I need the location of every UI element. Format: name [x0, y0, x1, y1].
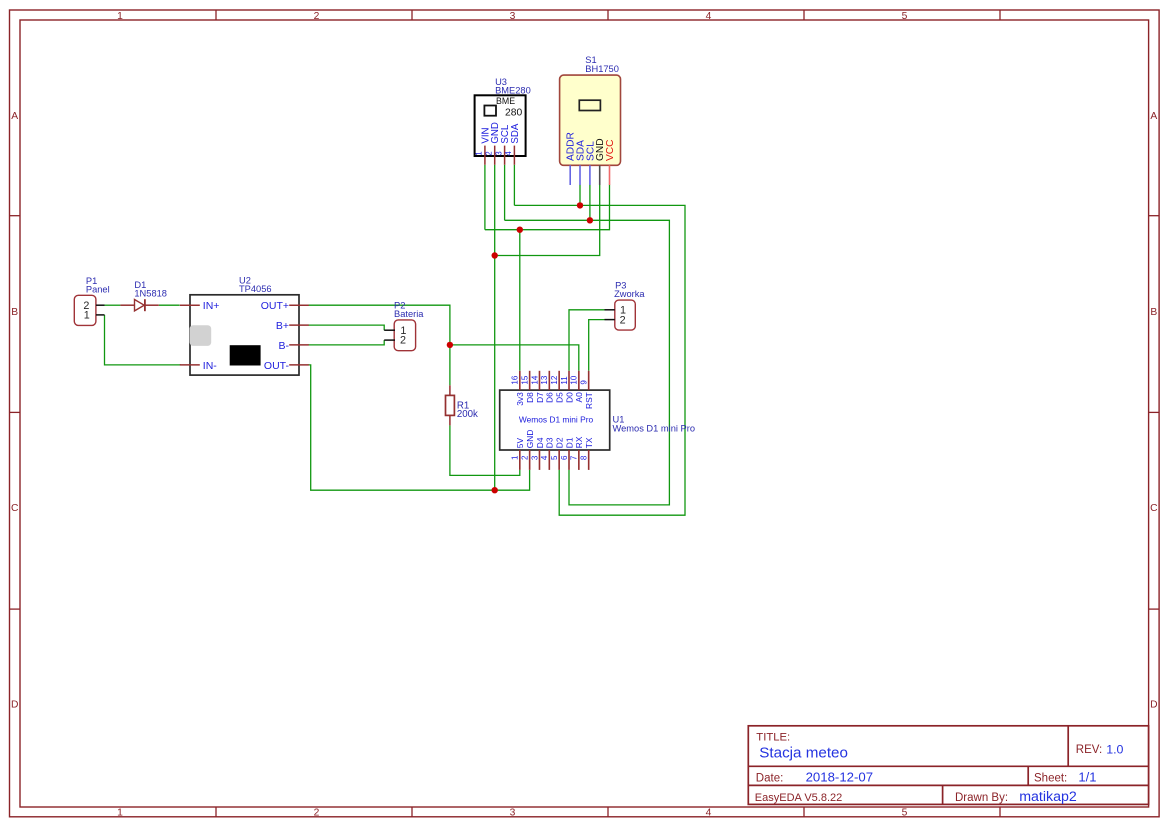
svg-text:1: 1: [511, 455, 520, 460]
svg-text:5: 5: [902, 11, 908, 22]
wire: SCL row right and down to D1 row: [505, 220, 670, 505]
svg-text:2018-12-07: 2018-12-07: [806, 770, 873, 785]
svg-text:8: 8: [579, 455, 588, 460]
svg-text:Wemos D1 mini Pro: Wemos D1 mini Pro: [613, 423, 696, 433]
svg-text:A: A: [11, 111, 18, 122]
svg-text:B: B: [11, 307, 18, 318]
svg-text:13: 13: [540, 375, 549, 384]
wire: P1 pin2 to D1 anode (green): [105, 304, 121, 306]
U3 pin 1 VIN: [484, 146, 486, 165]
U3 pin 4 SDA: [513, 146, 515, 165]
P1 pin 2: [96, 304, 105, 306]
D1 cathode lead: [145, 304, 159, 306]
U1 bottom pin 1 5V: [519, 450, 521, 470]
svg-text:IN-: IN-: [203, 360, 218, 372]
wire: U2 B- to P2 pin2: [309, 340, 385, 345]
wire: U2 OUT- down and right along GND row to Wemos GND: [309, 365, 530, 490]
U1 bottom pin 3 D4: [538, 450, 540, 470]
svg-text:3v3: 3v3: [515, 392, 525, 406]
connector P2 Bateria: [384, 301, 424, 351]
U2 pin B-: [289, 344, 309, 346]
svg-text:2: 2: [520, 455, 529, 460]
U1 top pin 14 D7: [538, 371, 540, 390]
svg-text:2: 2: [314, 11, 320, 22]
svg-text:B: B: [1150, 307, 1157, 318]
svg-text:D3: D3: [545, 437, 555, 448]
svg-text:2: 2: [620, 315, 626, 327]
U2 usb connector (gray): [190, 325, 212, 346]
svg-text:3: 3: [494, 151, 503, 156]
wire: P1 pin1 down and right to U2 IN-: [105, 315, 182, 365]
svg-text:2: 2: [314, 807, 320, 818]
wire: S1 SDA drop to SDA row: [579, 185, 581, 206]
svg-text:RX: RX: [574, 436, 584, 448]
S1 pin SCL: [589, 165, 591, 185]
svg-text:3: 3: [510, 807, 516, 818]
svg-text:TP4056: TP4056: [239, 284, 272, 294]
U1 bottom pin 2 GND: [529, 450, 531, 470]
S1 pin VCC: [609, 165, 611, 185]
R1 top lead: [449, 385, 451, 395]
svg-text:16: 16: [511, 375, 520, 384]
wire: R1 bottom down, right to Wemos 5V: [450, 425, 520, 475]
wire: P3 pin1 to Wemos D0: [569, 310, 605, 371]
sensor S1 BH1750: [560, 55, 621, 185]
wire: node to Wemos A0: [450, 345, 579, 371]
svg-text:14: 14: [530, 375, 539, 384]
S1 pin SDA: [579, 165, 581, 185]
U3 pin 2 GND: [494, 146, 496, 165]
U1 top pin 11 D0: [568, 371, 570, 390]
module U1 Wemos D1 mini Pro: [500, 371, 695, 470]
junction: SDA row at S1 SDA: [577, 202, 583, 208]
wire: U3 GND vertical down to GND row: [494, 165, 496, 490]
wire: D1 cathode to U2 IN+ (green): [159, 304, 180, 306]
svg-text:4: 4: [540, 455, 549, 460]
svg-text:Bateria: Bateria: [394, 309, 424, 319]
svg-text:D: D: [1150, 699, 1157, 710]
svg-text:6: 6: [560, 455, 569, 460]
svg-text:3: 3: [530, 455, 539, 460]
svg-text:D7: D7: [535, 392, 545, 403]
svg-text:Panel: Panel: [86, 284, 110, 294]
svg-text:10: 10: [570, 375, 579, 384]
svg-text:15: 15: [520, 375, 529, 384]
svg-text:5: 5: [550, 455, 559, 460]
wire: U3 VIN down to power row: [484, 165, 486, 230]
svg-text:TX: TX: [584, 437, 594, 448]
svg-text:OUT-: OUT-: [264, 360, 290, 372]
U2 pin OUT+: [289, 304, 309, 306]
junction: OUT+/R1/A0 node: [447, 342, 453, 348]
P3 pin 1: [605, 309, 615, 311]
svg-text:280: 280: [505, 107, 522, 118]
svg-text:4: 4: [706, 11, 712, 22]
junction: GND bottom row: [492, 487, 498, 493]
P1 pin 1: [96, 314, 105, 316]
R1 bottom lead: [449, 415, 451, 425]
U1 top pin 13 D6: [548, 371, 550, 390]
svg-text:D2: D2: [555, 437, 565, 448]
svg-text:Sheet:: Sheet:: [1034, 772, 1067, 784]
U2 pin B+: [289, 324, 309, 326]
wire: power row U3 VIN to S1 VCC: [485, 185, 610, 230]
wire: node down to R1 top: [449, 345, 451, 385]
P3 pin 2: [605, 319, 615, 321]
U2 ic (black): [230, 345, 261, 365]
U1 bottom pin 6 D1: [568, 450, 570, 470]
wire: U3 SDA down to SDA row: [513, 165, 515, 206]
svg-text:VCC: VCC: [605, 139, 616, 161]
D1 triangle: [135, 300, 145, 311]
wire: P3 pin2 to Wemos RST: [589, 320, 605, 371]
svg-text:1: 1: [475, 151, 484, 156]
U3 pin 3 SCL: [504, 146, 506, 165]
wire: GND row branch to S1 GND: [495, 185, 600, 256]
svg-text:Wemos D1 mini Pro: Wemos D1 mini Pro: [519, 415, 594, 425]
wire: U3 SCL down to SCL row: [504, 165, 506, 221]
D1 cathode bar: [144, 299, 146, 311]
svg-text:D8: D8: [525, 392, 535, 403]
svg-text:Stacja meteo: Stacja meteo: [759, 744, 848, 761]
svg-text:1/1: 1/1: [1078, 769, 1096, 784]
U1 top pin 12 D5: [558, 371, 560, 390]
S1 chip rectangle: [579, 100, 600, 110]
svg-text:matikap2: matikap2: [1019, 789, 1077, 805]
diode D1 1N5818: [120, 280, 167, 311]
P2 pin 2: [384, 339, 395, 341]
svg-text:1: 1: [84, 310, 90, 322]
svg-text:11: 11: [560, 376, 569, 385]
svg-text:B-: B-: [279, 340, 290, 352]
wire: SDA row right and down to D2 row: [514, 205, 685, 515]
U2 pin IN+: [180, 304, 200, 306]
svg-text:A0: A0: [574, 392, 584, 403]
svg-text:A: A: [1150, 111, 1157, 122]
svg-text:D4: D4: [535, 437, 545, 448]
svg-text:D0: D0: [564, 392, 574, 403]
svg-text:1: 1: [117, 11, 123, 22]
svg-text:BH1750: BH1750: [585, 64, 619, 74]
wire: U2 OUT+ right then down to node: [309, 305, 450, 345]
svg-text:D: D: [11, 699, 18, 710]
svg-text:7: 7: [570, 455, 579, 460]
U1 bottom pin 4 D3: [548, 450, 550, 470]
svg-text:9: 9: [579, 380, 588, 385]
svg-text:OUT+: OUT+: [261, 300, 289, 312]
svg-text:D5: D5: [555, 392, 565, 403]
svg-text:B+: B+: [276, 320, 289, 332]
svg-text:1: 1: [117, 807, 123, 818]
connector P3 Zworka: [605, 281, 646, 330]
svg-text:3: 3: [510, 11, 516, 22]
title block: [748, 726, 1148, 805]
U1 bottom pin 5 D2: [558, 450, 560, 470]
svg-text:C: C: [11, 503, 19, 514]
svg-text:4: 4: [706, 807, 712, 818]
svg-text:5: 5: [902, 807, 908, 818]
svg-text:2: 2: [400, 335, 406, 347]
sensor U3 BME280: [475, 77, 531, 165]
svg-text:D6: D6: [545, 392, 555, 403]
resistor R1 200k: [446, 385, 479, 425]
S1 pin GND: [599, 165, 601, 185]
junction: SCL row at S1 SCL: [587, 217, 593, 223]
svg-text:1N5818: 1N5818: [134, 288, 167, 298]
svg-text:TITLE:: TITLE:: [756, 731, 790, 743]
svg-text:1.0: 1.0: [1106, 743, 1123, 757]
U1 top pin 16 3v3: [519, 371, 521, 390]
svg-text:RST: RST: [584, 392, 594, 409]
svg-text:BME280: BME280: [495, 85, 531, 95]
svg-text:2: 2: [484, 151, 493, 156]
D1 anode lead: [120, 304, 134, 306]
svg-text:REV:: REV:: [1076, 744, 1102, 756]
U1 bottom pin 8 TX: [588, 450, 590, 470]
P2 pin 1: [384, 329, 395, 331]
connector P1 Panel: [74, 276, 109, 326]
module U2 TP4056: [180, 275, 309, 375]
svg-text:SDA: SDA: [510, 123, 521, 143]
svg-text:C: C: [1150, 503, 1158, 514]
U3 chip square: [484, 106, 496, 116]
svg-text:GND: GND: [525, 430, 535, 449]
wire: S1 SCL drop to SCL row: [589, 185, 591, 221]
U2 pin IN-: [180, 364, 200, 366]
svg-text:BME: BME: [496, 96, 515, 106]
svg-text:5V: 5V: [515, 438, 525, 449]
U1 top pin 15 D8: [529, 371, 531, 390]
U1 top pin 10 A0: [578, 371, 580, 390]
U2 pin OUT-: [289, 364, 309, 366]
U1 top pin 9 RST: [588, 371, 590, 390]
junction: GND row at U3 GND: [492, 252, 498, 258]
svg-text:D1: D1: [564, 437, 574, 448]
wire: U2 B+ to P2 pin1: [309, 325, 385, 330]
svg-text:Zworka: Zworka: [614, 289, 645, 299]
wire: power row branch down to Wemos 3v3: [519, 230, 521, 371]
svg-text:EasyEDA V5.8.22: EasyEDA V5.8.22: [755, 792, 842, 804]
S1 pin ADDR: [569, 165, 571, 185]
svg-text:200k: 200k: [457, 409, 478, 420]
svg-text:4: 4: [504, 151, 513, 156]
svg-text:Drawn By:: Drawn By:: [955, 792, 1008, 804]
svg-text:12: 12: [550, 375, 559, 384]
svg-text:IN+: IN+: [203, 300, 220, 312]
junction: power row at 3v3 branch: [517, 227, 523, 233]
U1 bottom pin 7 RX: [578, 450, 580, 470]
svg-text:Date:: Date:: [756, 772, 784, 784]
R1 body: [446, 395, 455, 415]
